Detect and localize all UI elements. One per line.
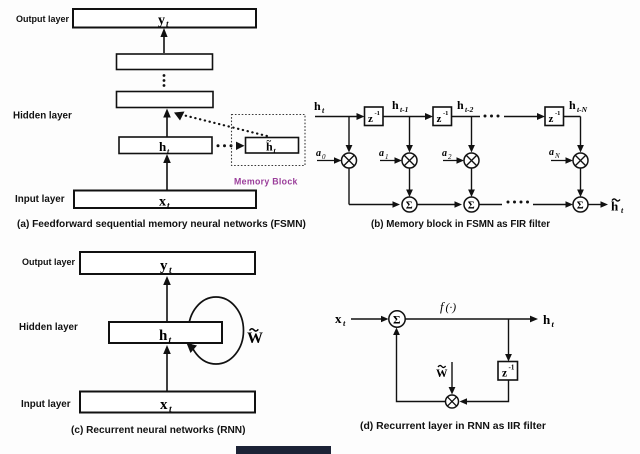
svg-text:z: z xyxy=(368,113,373,125)
arrow W into mult (d) xyxy=(451,362,453,390)
wire arrow y (a) xyxy=(163,33,165,53)
svg-text:a: a xyxy=(442,148,447,159)
wire arrow h to y (c) xyxy=(166,281,168,322)
delay z3 box (b) xyxy=(545,107,564,126)
svg-text:-1: -1 xyxy=(555,110,560,117)
multiplier X1 (b) xyxy=(342,153,357,168)
svg-text:y: y xyxy=(160,258,168,274)
svg-text:x: x xyxy=(159,195,166,210)
delay z box (d) xyxy=(498,362,518,381)
svg-text:1: 1 xyxy=(385,153,389,161)
h~_t box in memory block (a) xyxy=(246,138,299,154)
input box (c) xyxy=(80,392,255,413)
arrow a0 (b) xyxy=(317,160,337,162)
svg-text:t-N: t-N xyxy=(577,105,588,114)
adder S1 (b) xyxy=(402,197,417,212)
wire arrow h to hidden (a) xyxy=(166,113,168,137)
wire sum1 to sum2 (b) xyxy=(417,204,458,206)
svg-text:~: ~ xyxy=(267,136,272,146)
svg-text:Output layer: Output layer xyxy=(22,257,76,267)
wire sum to h (d) xyxy=(406,318,534,320)
svg-text:Hidden layer: Hidden layer xyxy=(19,322,78,333)
svg-text:x: x xyxy=(335,311,342,326)
svg-text:-1: -1 xyxy=(375,110,380,117)
svg-text:h: h xyxy=(392,98,399,112)
svg-text:a: a xyxy=(379,148,384,159)
loop arrowhead into box (c) xyxy=(187,343,198,353)
hidden box upper (a) xyxy=(117,54,213,70)
svg-text:Input layer: Input layer xyxy=(21,399,71,410)
svg-text:t-2: t-2 xyxy=(465,105,474,114)
svg-text:Σ: Σ xyxy=(406,201,413,212)
wire mult left and up to sum (d) xyxy=(397,332,446,402)
wire X4 to sum3 (b) xyxy=(580,168,582,193)
svg-text:2: 2 xyxy=(448,153,452,161)
memory block dashed box (a) xyxy=(232,115,306,166)
svg-text:t: t xyxy=(169,336,172,346)
drop wire col3 (b) xyxy=(471,117,473,149)
svg-text:y: y xyxy=(158,13,165,28)
delay z1 box (b) xyxy=(365,107,384,126)
svg-text:Σ: Σ xyxy=(393,315,401,327)
wire dots to sum3 (b) xyxy=(533,204,569,206)
drop wire col2 (b) xyxy=(409,117,411,149)
multiplier X4 (b) xyxy=(573,153,588,168)
wire X1 down to sum line (b) xyxy=(348,168,350,205)
svg-text:(b) Memory block in FSMN as FI: (b) Memory block in FSMN as FIR filter xyxy=(371,219,550,230)
wire top line h_t to z1 (b) xyxy=(315,116,360,118)
wire z2 out (b) xyxy=(452,116,481,118)
svg-text:0: 0 xyxy=(322,153,326,161)
svg-text:Σ: Σ xyxy=(577,201,584,212)
svg-text:Hidden layer: Hidden layer xyxy=(13,111,72,122)
dotted arrow h to memory block (a) xyxy=(217,144,220,147)
svg-text:h: h xyxy=(457,98,464,112)
svg-text:N: N xyxy=(554,152,560,160)
hidden box lower (a) xyxy=(117,92,214,108)
hidden box (c) xyxy=(109,322,222,343)
svg-text:z: z xyxy=(437,113,442,125)
svg-text:h: h xyxy=(543,312,551,327)
svg-text:Σ: Σ xyxy=(468,201,475,212)
arrow a2 (b) xyxy=(443,160,460,162)
svg-text:z: z xyxy=(502,368,507,380)
wire X3 to sum2 (b) xyxy=(471,168,473,193)
svg-text:h: h xyxy=(314,99,321,113)
multiplier X2 (b) xyxy=(402,153,417,168)
input layer box (a) xyxy=(74,191,256,209)
adder S2 (b) xyxy=(464,197,479,212)
svg-text:h: h xyxy=(159,328,168,344)
vertical dots (a) xyxy=(163,74,166,77)
wire X2 to sum1 (b) xyxy=(409,168,411,193)
wire into z3 (b) xyxy=(504,116,541,118)
svg-text:(·): (·) xyxy=(446,302,457,314)
svg-text:Input layer: Input layer xyxy=(15,194,65,205)
svg-text:W: W xyxy=(436,368,448,380)
delay z2 box (b) xyxy=(433,107,452,126)
watermark bar bottom xyxy=(236,446,331,454)
wire z3 out (b) xyxy=(564,116,581,118)
dotted arrow memory to hidden (a) xyxy=(181,115,271,138)
svg-text:Output layer: Output layer xyxy=(16,14,70,24)
svg-text:a: a xyxy=(316,148,321,159)
svg-text:(d) Recurrent layer in RNN as: (d) Recurrent layer in RNN as IIR filter xyxy=(360,421,546,432)
wire arrow x to sum (d) xyxy=(351,318,384,320)
svg-text:Memory Block: Memory Block xyxy=(234,177,298,187)
drop wire col4 (b) xyxy=(580,117,582,149)
svg-text:t: t xyxy=(169,266,172,276)
svg-text:t: t xyxy=(169,405,172,415)
svg-text:-1: -1 xyxy=(509,364,515,372)
multiplier X3 (b) xyxy=(464,153,479,168)
drop wire col1 (b) xyxy=(348,117,350,149)
wire sum3 to output (b) xyxy=(588,204,604,206)
svg-text:(a) Feedforward sequential me: (a) Feedforward sequential memory neural… xyxy=(17,219,306,230)
dots top (b) xyxy=(484,115,487,118)
h_t box (a) xyxy=(119,137,212,154)
adder S3 (b) xyxy=(573,197,588,212)
arrow a1 (b) xyxy=(380,160,398,162)
recurrent loop ellipse (c) xyxy=(189,297,244,364)
wire sum2 out and dots (b) xyxy=(479,204,502,206)
svg-text:(c) Recurrent neural networks: (c) Recurrent neural networks (RNN) xyxy=(71,425,245,436)
arrow aN (b) xyxy=(551,160,569,162)
wire arrow x to h (c) xyxy=(166,350,168,391)
svg-text:a: a xyxy=(549,147,554,158)
svg-text:-1: -1 xyxy=(443,110,448,117)
svg-text:x: x xyxy=(160,397,168,413)
svg-text:h: h xyxy=(569,98,576,112)
svg-text:t-1: t-1 xyxy=(400,105,408,114)
adder circle (d) xyxy=(389,311,405,327)
wire arrow x to h (a) xyxy=(166,159,168,191)
svg-text:W: W xyxy=(247,330,263,347)
svg-text:h: h xyxy=(159,139,167,154)
wire z1 to z2 (b) xyxy=(383,116,429,118)
svg-text:z: z xyxy=(549,113,554,125)
output layer box (a) xyxy=(73,9,256,28)
output box (c) xyxy=(80,252,255,274)
multiplier circle (d) xyxy=(446,395,459,408)
wire drop to z (d) xyxy=(508,319,510,357)
wire z down and left to mult (d) xyxy=(464,380,509,402)
